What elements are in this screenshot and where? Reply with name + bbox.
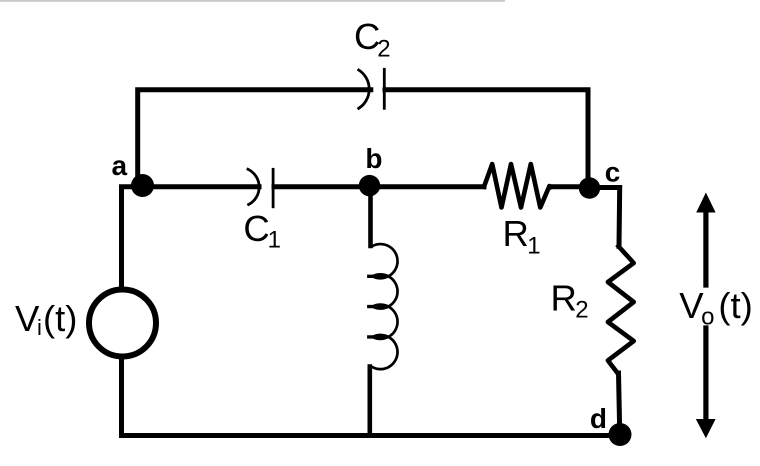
svg-text:o: o [701, 303, 714, 330]
wire R2 bottom to node d [619, 373, 620, 436]
svg-text:C: C [243, 208, 269, 249]
wire node a up and across to C2 left plate [138, 90, 371, 186]
wire inductor bottom to bottom rail [367, 367, 372, 436]
bottom wire rail from source to node d [122, 433, 621, 438]
svg-text:(t): (t) [43, 298, 77, 339]
capacitor C2 [359, 69, 385, 108]
node c junction dot [579, 177, 600, 198]
arrowhead up of Vo arrow [696, 193, 715, 213]
wire node a down-left corner to source top, and a to C1 [122, 187, 260, 288]
wire C2 right plate across and down to node c [385, 90, 588, 186]
svg-text:(t): (t) [718, 285, 752, 326]
resistor R1 [484, 164, 551, 208]
wire R1 to node c [551, 184, 590, 189]
wire node c to R2 top [589, 188, 620, 247]
svg-text:i: i [37, 315, 42, 340]
svg-text:2: 2 [377, 35, 390, 62]
inductor [369, 244, 398, 369]
voltage source Vi [89, 290, 156, 357]
capacitor C1 [248, 169, 273, 207]
svg-text:d: d [590, 403, 607, 434]
voltage arrow Vo line upper [703, 210, 708, 285]
wire source bottom to bottom rail [119, 357, 124, 436]
node a junction dot [131, 174, 154, 197]
node b junction dot [359, 175, 380, 196]
node d junction dot [609, 423, 632, 446]
svg-text:R: R [551, 278, 577, 319]
svg-text:a: a [112, 150, 128, 181]
wire node b down to inductor [368, 187, 373, 246]
svg-text:1: 1 [527, 232, 540, 259]
wire C1 right plate to node b [274, 184, 370, 189]
resistor R2 [608, 246, 634, 373]
svg-text:c: c [605, 156, 621, 187]
svg-text:2: 2 [575, 297, 588, 324]
wire node b to resistor R1 [370, 184, 485, 189]
svg-text:R: R [503, 213, 529, 254]
svg-text:1: 1 [268, 227, 281, 254]
arrowhead down of Vo arrow [696, 419, 716, 438]
voltage arrow Vo line lower [703, 328, 708, 420]
svg-text:b: b [365, 143, 382, 174]
